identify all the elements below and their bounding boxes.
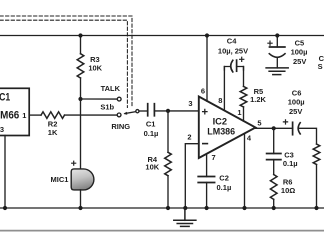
svg-text:1.2K: 1.2K (250, 95, 266, 104)
switch S1b (100, 84, 139, 131)
wire top supply rail (0, 35, 324, 37)
svg-text:5: 5 (257, 118, 261, 127)
svg-text:6: 6 (201, 86, 205, 95)
capacitor C1 (144, 104, 159, 138)
wire pin 2 to ground (185, 144, 199, 208)
svg-text:C5: C5 (295, 38, 305, 47)
junction pin6/rail (205, 33, 209, 37)
capacitor C6 (283, 89, 304, 135)
wire C6 to load (299, 128, 316, 144)
svg-text:S: S (318, 62, 323, 71)
wire to TALK contact (81, 98, 118, 100)
wire mic column (80, 99, 82, 169)
capacitor C3 (267, 128, 298, 168)
wire pin 8 to C4 (223, 67, 225, 111)
border frame bottom (0, 230, 324, 232)
ground symbol bottom (174, 208, 196, 226)
svg-text:TALK: TALK (101, 84, 121, 93)
junction pin4/rail (242, 206, 246, 210)
svg-text:10K: 10K (145, 162, 159, 171)
svg-text:C1: C1 (146, 119, 156, 128)
resistor R4 (167, 111, 169, 152)
junction mic/rail (78, 206, 82, 210)
junction R6/rail (272, 206, 276, 210)
svg-text:0.1µ: 0.1µ (144, 129, 159, 138)
resistor R6 (273, 160, 275, 175)
wire pole to C1 (139, 110, 148, 112)
wire mic to rail (80, 190, 82, 208)
junction pin3/rail (3, 206, 7, 210)
svg-text:UM66: UM66 (0, 109, 19, 121)
junction C1/R4/pin3 (166, 109, 170, 113)
svg-text:C6: C6 (292, 89, 302, 98)
svg-text:0.1µ: 0.1µ (217, 183, 232, 192)
svg-text:MIC1: MIC1 (51, 175, 69, 184)
svg-text:8: 8 (218, 96, 222, 105)
wire R2 to RING contact (65, 114, 118, 116)
svg-text:IC1: IC1 (0, 91, 10, 103)
resistor load right (313, 144, 320, 165)
svg-text:1: 1 (22, 111, 26, 120)
svg-text:C4: C4 (227, 37, 237, 46)
svg-text:LM386: LM386 (207, 126, 235, 136)
wire C1 to pin 3 (154, 110, 198, 112)
junction R3 / TALK / mic (78, 97, 82, 101)
dashed switch linkage outer (0, 16, 132, 108)
svg-text:RING: RING (111, 122, 130, 131)
wire pin 6 to rail (206, 36, 208, 102)
wire IC1 pin 3 to ground rail (4, 136, 6, 209)
junction output/C3 (272, 126, 276, 130)
wire C2 to rail (206, 183, 208, 209)
wire bottom ground rail (0, 207, 324, 209)
wire pin 4 to rail (244, 134, 246, 208)
op-amp IC2 LM386 (187, 86, 261, 162)
resistor R2 (41, 112, 65, 119)
dashed switch linkage inner (0, 20, 127, 107)
svg-text:2: 2 (187, 132, 191, 141)
svg-text:3: 3 (0, 125, 4, 134)
svg-text:1: 1 (237, 108, 241, 117)
junction C2/rail (205, 206, 209, 210)
svg-text:4: 4 (247, 134, 252, 143)
svg-text:S1b: S1b (100, 103, 114, 112)
mic MIC1 (51, 161, 94, 190)
svg-text:R2: R2 (48, 119, 58, 128)
svg-text:100µ: 100µ (291, 48, 308, 57)
junction R4/rail (166, 206, 170, 210)
IC1 UM66 box (0, 88, 29, 135)
svg-text:10K: 10K (88, 63, 102, 72)
svg-text:C2: C2 (219, 173, 229, 182)
svg-text:25V: 25V (293, 57, 306, 66)
capacitor C4 (218, 37, 248, 72)
junction pin2/rail (183, 206, 187, 210)
svg-text:1K: 1K (48, 128, 58, 137)
svg-text:0.1µ: 0.1µ (283, 159, 298, 168)
wire output pin 5 (256, 127, 293, 129)
junction C5/rail (275, 33, 279, 37)
wire IC1 pin1 to R2 (29, 114, 41, 116)
svg-text:10Ω: 10Ω (281, 186, 295, 195)
svg-text:7: 7 (212, 153, 216, 162)
svg-text:10µ, 25V: 10µ, 25V (218, 47, 248, 56)
svg-text:3: 3 (188, 99, 192, 108)
capacitor C5 (268, 36, 308, 68)
svg-text:25V: 25V (289, 107, 302, 116)
svg-text:IC2: IC2 (213, 116, 227, 126)
wire pin 7 to C2 (206, 154, 208, 177)
capacitor C2 (198, 173, 231, 192)
junction load/rail (314, 206, 318, 210)
resistor R3 (80, 36, 82, 54)
svg-text:100µ: 100µ (288, 98, 305, 107)
ground symbol C5 (266, 68, 288, 75)
resistor R5 (243, 67, 245, 87)
junction R3 top rail (78, 33, 82, 37)
